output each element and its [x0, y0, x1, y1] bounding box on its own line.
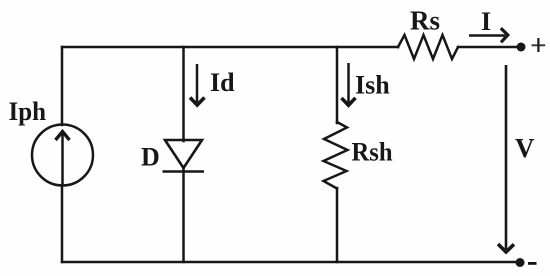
wire bottom horizontal	[62, 261, 517, 264]
svg-text:I: I	[481, 7, 491, 36]
wire diode branch upper	[182, 47, 185, 141]
svg-text:D: D	[141, 143, 160, 172]
arrow V	[498, 65, 514, 252]
current source U1 circle	[32, 125, 93, 186]
arrow Ish	[342, 63, 356, 105]
arrow Id	[190, 64, 205, 105]
resistor Rs	[398, 35, 458, 59]
wire shunt branch lower	[336, 188, 339, 262]
svg-text:Rsh: Rsh	[352, 138, 394, 167]
wire shunt branch upper	[336, 47, 339, 123]
diode D symbol	[163, 140, 205, 172]
svg-text:Id: Id	[210, 68, 235, 97]
svg-text:Rs: Rs	[410, 6, 440, 36]
wire top left horizontal	[62, 46, 398, 49]
node negative terminal dot	[516, 258, 525, 267]
current source arrow (inside circle)	[56, 132, 70, 185]
svg-text:V: V	[515, 133, 535, 163]
wire left vertical upper	[61, 47, 64, 125]
label minus sign	[528, 262, 537, 265]
wire diode branch lower	[182, 167, 185, 262]
arrow I	[469, 28, 508, 42]
node positive terminal dot	[517, 43, 526, 52]
label plus sign	[532, 38, 546, 52]
wire top right horizontal	[458, 46, 518, 49]
svg-text:Ish: Ish	[355, 71, 390, 100]
resistor Rsh	[324, 122, 348, 189]
wire left vertical lower	[61, 185, 64, 262]
svg-text:Iph: Iph	[9, 97, 47, 126]
